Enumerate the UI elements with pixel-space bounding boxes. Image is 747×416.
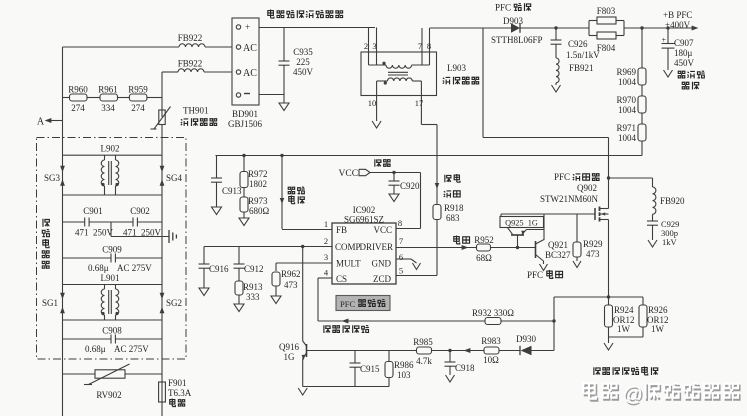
transistor Q925 <box>508 228 545 250</box>
wire Q916 emitter rail <box>303 386 389 388</box>
capacitor C907 bulk <box>662 26 695 70</box>
capacitor C908 <box>63 326 163 355</box>
wire series R row <box>63 97 70 99</box>
label mains rectifier filter circuit <box>268 10 343 19</box>
capacitor C901 <box>63 206 114 238</box>
svg-text:450V: 450V <box>293 67 314 77</box>
wire VCC to pin8 <box>420 173 422 229</box>
svg-text:3: 3 <box>372 41 376 51</box>
ferrite bead FB920 <box>653 178 686 214</box>
svg-text:AC 275V: AC 275V <box>117 263 152 273</box>
fuse F901 <box>159 378 192 406</box>
svg-text:MULT: MULT <box>336 259 361 269</box>
svg-text:BC327: BC327 <box>545 250 571 260</box>
resistor R929 <box>573 214 603 261</box>
label zero crossing detection <box>444 174 460 198</box>
svg-text:683: 683 <box>446 213 460 223</box>
svg-text:GND: GND <box>372 259 392 269</box>
svg-text:SG3: SG3 <box>44 173 61 183</box>
resistor R973 <box>240 188 270 219</box>
svg-text:GBJ1506: GBJ1506 <box>228 119 263 129</box>
ground below C929 <box>648 240 657 247</box>
label IC902 SG6961SZ <box>344 205 384 225</box>
svg-text:PFC: PFC <box>527 270 543 280</box>
ferrite bead FB921 <box>556 58 594 85</box>
label anti-interference circuit <box>42 219 49 268</box>
capacitor C918 <box>445 349 476 375</box>
svg-text:C901: C901 <box>83 206 103 216</box>
resistor R985 <box>413 337 484 366</box>
svg-text:R986: R986 <box>394 360 414 370</box>
wire gate line <box>501 213 595 215</box>
ground below Q921 <box>540 264 548 271</box>
svg-text:C913: C913 <box>222 186 242 196</box>
pin 10 of L903 to ground <box>368 81 377 121</box>
svg-text:Q902: Q902 <box>577 183 597 193</box>
svg-text:CS: CS <box>336 274 347 284</box>
svg-text:L902: L902 <box>101 144 120 154</box>
transistor Q921 <box>536 240 572 265</box>
wire pin7 drive line <box>396 247 477 249</box>
svg-text:VCC: VCC <box>373 225 392 235</box>
svg-text:F804: F804 <box>597 43 616 53</box>
svg-text:C907: C907 <box>674 38 694 48</box>
svg-text:Q925 1G: Q925 1G <box>505 219 538 228</box>
svg-text:274: 274 <box>131 103 145 113</box>
L903 secondary winding <box>377 78 422 85</box>
svg-text:FB922: FB922 <box>178 33 203 43</box>
pin 2 COMP <box>204 236 361 252</box>
svg-text:R960: R960 <box>68 85 88 95</box>
svg-text:1W: 1W <box>651 324 665 334</box>
pin 17 of L903 wire <box>415 81 440 205</box>
terminal + of BD901 <box>236 22 250 32</box>
resistor R983 <box>481 336 520 365</box>
svg-text:@: @ <box>623 384 643 406</box>
svg-text:ZCD: ZCD <box>373 274 392 284</box>
pin 6 GND <box>372 252 417 269</box>
svg-text:PFC: PFC <box>340 299 355 309</box>
svg-text:R913: R913 <box>243 282 263 292</box>
svg-text:C916: C916 <box>209 264 229 274</box>
svg-text:680Ω: 680Ω <box>249 206 270 216</box>
capacitor C913 <box>211 156 242 208</box>
ground below FB921 <box>552 85 561 92</box>
svg-text:C912: C912 <box>244 264 264 274</box>
svg-text:C908: C908 <box>102 326 122 336</box>
pin 7 DRIVER <box>360 236 404 252</box>
svg-text:L901: L901 <box>101 273 120 283</box>
wire source path <box>608 220 610 298</box>
resistor R959 <box>128 85 148 114</box>
wire drain path <box>482 28 484 138</box>
capacitor C926 <box>551 26 601 60</box>
svg-text:5: 5 <box>399 266 403 276</box>
svg-text:COMP: COMP <box>335 242 361 252</box>
svg-text:6: 6 <box>399 252 403 262</box>
capacitor C935 <box>279 28 314 95</box>
svg-text:225: 225 <box>296 57 310 67</box>
svg-text:SG1: SG1 <box>42 298 58 308</box>
label +B PFC +400V <box>663 10 692 30</box>
svg-text:R962: R962 <box>281 269 301 279</box>
svg-text:FB921: FB921 <box>569 63 594 73</box>
resistor R970 <box>616 85 646 115</box>
svg-text:IC902: IC902 <box>353 205 376 215</box>
ground below Q916 <box>298 388 307 395</box>
wire Q925 emitter to gate <box>543 214 545 240</box>
svg-text:1802: 1802 <box>249 179 267 189</box>
wire L903 to D903 <box>430 27 512 29</box>
svg-text:TH901: TH901 <box>183 106 209 116</box>
wire top AC line L <box>63 46 180 48</box>
label BD901 GBJ1506 <box>228 109 263 129</box>
spark gap SG2 <box>160 293 182 313</box>
svg-text:1.5n/1kV: 1.5n/1kV <box>566 50 600 60</box>
svg-text:R929: R929 <box>583 239 603 249</box>
wire drain to snubber <box>609 177 653 179</box>
wire BD+ to L903 <box>259 27 375 29</box>
spark gap SG4 <box>160 166 183 186</box>
svg-text:BD901: BD901 <box>232 109 258 119</box>
L903 primary winding <box>369 62 430 69</box>
varistor RV902 <box>63 364 163 400</box>
ground below C916 <box>199 288 209 296</box>
svg-text:7: 7 <box>418 41 422 51</box>
svg-text:R973: R973 <box>248 196 268 206</box>
wire R932 to sense node <box>501 320 554 322</box>
label PFC rectifier D903 <box>491 3 543 46</box>
svg-text:R970: R970 <box>616 95 636 105</box>
svg-text:R972: R972 <box>248 169 268 179</box>
resistor R913 <box>235 281 263 304</box>
fuse F804 <box>589 21 624 54</box>
svg-text:R971: R971 <box>616 123 636 133</box>
svg-text:VCC: VCC <box>339 169 359 179</box>
resistor R932 <box>472 308 514 325</box>
pin 8 VCC <box>373 218 402 235</box>
svg-text:R926: R926 <box>648 305 668 315</box>
wire D903 to fuse <box>520 27 589 29</box>
svg-text:R952: R952 <box>474 235 494 245</box>
svg-text:Q916: Q916 <box>279 342 299 352</box>
svg-text:C915: C915 <box>360 364 380 374</box>
wire sense top rail <box>554 296 643 298</box>
wire ZCD pin5 <box>396 275 437 277</box>
svg-text:103: 103 <box>397 370 411 380</box>
wire CS line <box>317 278 319 321</box>
svg-text:FB: FB <box>336 225 347 235</box>
svg-text:0.68μ: 0.68μ <box>88 263 109 273</box>
svg-text:1W: 1W <box>617 324 631 334</box>
diode D930 <box>516 334 554 355</box>
resistor R962 <box>272 263 301 296</box>
ground at L903 pin 10 <box>372 121 381 128</box>
svg-text:10: 10 <box>368 98 377 108</box>
capacitor C920 <box>389 173 421 195</box>
svg-text:C935: C935 <box>293 47 313 57</box>
L903 core <box>388 71 408 73</box>
watermark toutiao <box>583 381 739 408</box>
label overcurrent protection sampling <box>594 367 658 375</box>
pins 7 8 of L903 <box>418 28 431 65</box>
node A arrow <box>37 117 63 128</box>
wire sense bottom rail <box>609 336 644 338</box>
svg-text:R969: R969 <box>616 67 636 77</box>
resistor R926 <box>639 297 669 337</box>
pin 5 ZCD <box>373 266 403 285</box>
svg-text:8: 8 <box>398 218 402 228</box>
svg-text:R932 330Ω: R932 330Ω <box>472 308 514 318</box>
resistor R961 <box>98 85 118 114</box>
wire BD- to ground <box>259 94 284 96</box>
svg-text:AC: AC <box>243 68 257 79</box>
svg-text:0.68μ: 0.68μ <box>85 344 106 354</box>
ground below C907 <box>664 70 673 77</box>
svg-text:L903: L903 <box>447 63 466 73</box>
wire VCC rail <box>370 172 421 174</box>
svg-text:A: A <box>37 117 45 128</box>
svg-text:180μ: 180μ <box>674 48 693 58</box>
svg-text:7: 7 <box>399 236 403 246</box>
capacitor C916 <box>199 247 230 289</box>
label PFC drive <box>527 270 563 280</box>
resistor R952 <box>474 235 494 263</box>
label L903 <box>443 63 479 84</box>
capacitor C909 <box>63 245 163 274</box>
svg-text:D930: D930 <box>516 334 536 344</box>
svg-text:471 250V: 471 250V <box>75 228 114 238</box>
svg-text:274: 274 <box>71 103 85 113</box>
svg-text:2: 2 <box>324 236 328 246</box>
EMI filter dashed box <box>37 138 187 360</box>
svg-text:T6.3A: T6.3A <box>168 388 192 398</box>
wire +B PFC output <box>624 27 694 29</box>
label big filter capacitor <box>678 71 704 90</box>
resistor chain R969 <box>616 26 646 87</box>
thermistor TH901 <box>151 107 171 139</box>
label overcurrent protection <box>324 325 369 333</box>
svg-text:AC 275V: AC 275V <box>114 344 149 354</box>
inductor L903 box <box>361 52 437 96</box>
ground below R913 <box>234 304 244 312</box>
svg-text:PFC: PFC <box>495 3 511 13</box>
svg-text:2: 2 <box>364 41 368 51</box>
label output sampling <box>288 187 304 204</box>
svg-text:D903: D903 <box>503 16 523 26</box>
spark gap SG3 <box>44 166 65 186</box>
svg-text:334: 334 <box>101 103 115 113</box>
ground below R929 <box>573 261 581 268</box>
bridge rectifier BD901 box <box>232 18 259 105</box>
svg-text:C918: C918 <box>455 363 475 373</box>
resistor R924 <box>605 297 635 337</box>
svg-text:1004: 1004 <box>618 105 637 115</box>
svg-text:1004: 1004 <box>618 77 637 87</box>
svg-text:Q921: Q921 <box>548 240 568 250</box>
svg-text:FB920: FB920 <box>660 196 685 206</box>
svg-text:+B PFC: +B PFC <box>663 10 692 20</box>
ground below R962 <box>271 296 281 304</box>
svg-text:R959: R959 <box>128 85 148 95</box>
pins 2 3 of L903 <box>364 28 377 66</box>
svg-text:68Ω: 68Ω <box>476 253 492 263</box>
capacitor C915 <box>350 351 381 387</box>
label PFC switch Q902 <box>540 172 599 204</box>
svg-text:R961: R961 <box>98 85 118 95</box>
svg-text:3: 3 <box>324 252 328 262</box>
svg-text:C909: C909 <box>102 245 122 255</box>
wire right branch vertical <box>161 72 163 110</box>
wire right trunk in box <box>161 138 163 416</box>
svg-text:SG4: SG4 <box>166 173 183 183</box>
wire feedback rail <box>216 155 643 157</box>
spark gap SG1 <box>42 293 65 313</box>
svg-text:PFC: PFC <box>554 172 570 182</box>
svg-text:SG6961SZ: SG6961SZ <box>344 215 384 225</box>
wire AC line N <box>162 71 178 73</box>
wire sense node vertical <box>553 297 555 351</box>
svg-text:450V: 450V <box>674 58 695 68</box>
resistor R986 <box>385 351 414 387</box>
ferrite bead FB922 (lower) <box>178 59 204 73</box>
svg-text:R924: R924 <box>614 305 634 315</box>
transistor Q916 <box>279 247 307 387</box>
terminal - of BD901 <box>236 93 250 97</box>
ground at pin 6 <box>413 263 421 270</box>
transistor Q902 MOSFET <box>595 207 609 222</box>
svg-text:473: 473 <box>586 249 600 259</box>
pin 1 FB <box>282 219 347 235</box>
resistor R972 <box>240 154 268 189</box>
svg-text:F803: F803 <box>597 6 616 16</box>
svg-text:1G: 1G <box>284 352 296 362</box>
svg-text:F901: F901 <box>168 378 187 388</box>
ground below C920 <box>389 194 399 202</box>
svg-text:C902: C902 <box>130 206 150 216</box>
svg-text:333: 333 <box>246 292 260 302</box>
svg-text:AC: AC <box>243 43 257 54</box>
label supply <box>375 159 390 167</box>
resistor R960 <box>68 85 88 114</box>
svg-text:DRIVER: DRIVER <box>360 242 394 252</box>
wire left trunk vertical <box>62 47 64 416</box>
pin 4 CS <box>318 268 347 285</box>
transformer L902 <box>63 144 163 196</box>
ground below sense resistors <box>604 343 613 350</box>
op-amp IC902 SG6961SZ box <box>332 223 396 284</box>
ground below C935 <box>279 103 289 111</box>
svg-text:4.7k: 4.7k <box>416 356 432 366</box>
svg-text:1004: 1004 <box>618 133 637 143</box>
pin 3 MULT <box>276 252 361 269</box>
ground below C918 <box>446 375 455 382</box>
fuse F803 <box>589 6 624 36</box>
svg-text:SG2: SG2 <box>166 298 182 308</box>
svg-text:R983: R983 <box>481 336 501 346</box>
svg-text:R985: R985 <box>413 337 433 347</box>
label PFC controller <box>336 296 390 311</box>
svg-text:17: 17 <box>415 98 424 108</box>
svg-text:STW21NM60N: STW21NM60N <box>540 194 598 204</box>
label drive <box>454 236 470 244</box>
svg-text:+: + <box>245 22 250 32</box>
transistor Q925 label box <box>500 217 544 228</box>
svg-text:R918: R918 <box>444 203 464 213</box>
resistor R918 <box>433 203 464 276</box>
ground below R973 <box>239 218 249 226</box>
svg-text:STTH8L06FP: STTH8L06FP <box>491 35 543 45</box>
svg-text:FB922: FB922 <box>178 59 203 69</box>
label TH901 <box>181 106 217 126</box>
svg-text:473: 473 <box>284 280 298 290</box>
VCC arrow tag <box>339 169 371 179</box>
svg-text:10Ω: 10Ω <box>483 355 499 365</box>
capacitor C929 <box>647 214 679 247</box>
svg-text:C926: C926 <box>568 39 588 49</box>
capacitor C912 <box>234 247 264 282</box>
transformer L901 <box>63 273 163 320</box>
wire FB tap <box>280 154 285 229</box>
resistor R971 <box>616 113 646 156</box>
earth chassis ground <box>111 222 176 243</box>
svg-text:1: 1 <box>324 219 328 229</box>
wire Q916 base line <box>307 350 418 352</box>
svg-text:RV902: RV902 <box>96 390 121 400</box>
capacitor C902 <box>89 206 162 238</box>
svg-text:8: 8 <box>427 41 431 51</box>
ground below C913 <box>212 207 222 215</box>
terminal AC2 of BD901 <box>236 68 257 79</box>
svg-text:C920: C920 <box>400 181 420 191</box>
svg-text:1kV: 1kV <box>662 237 678 247</box>
terminal AC1 of BD901 <box>236 43 257 54</box>
ferrite bead FB922 (upper) <box>178 33 205 47</box>
diode D903 <box>511 23 520 33</box>
